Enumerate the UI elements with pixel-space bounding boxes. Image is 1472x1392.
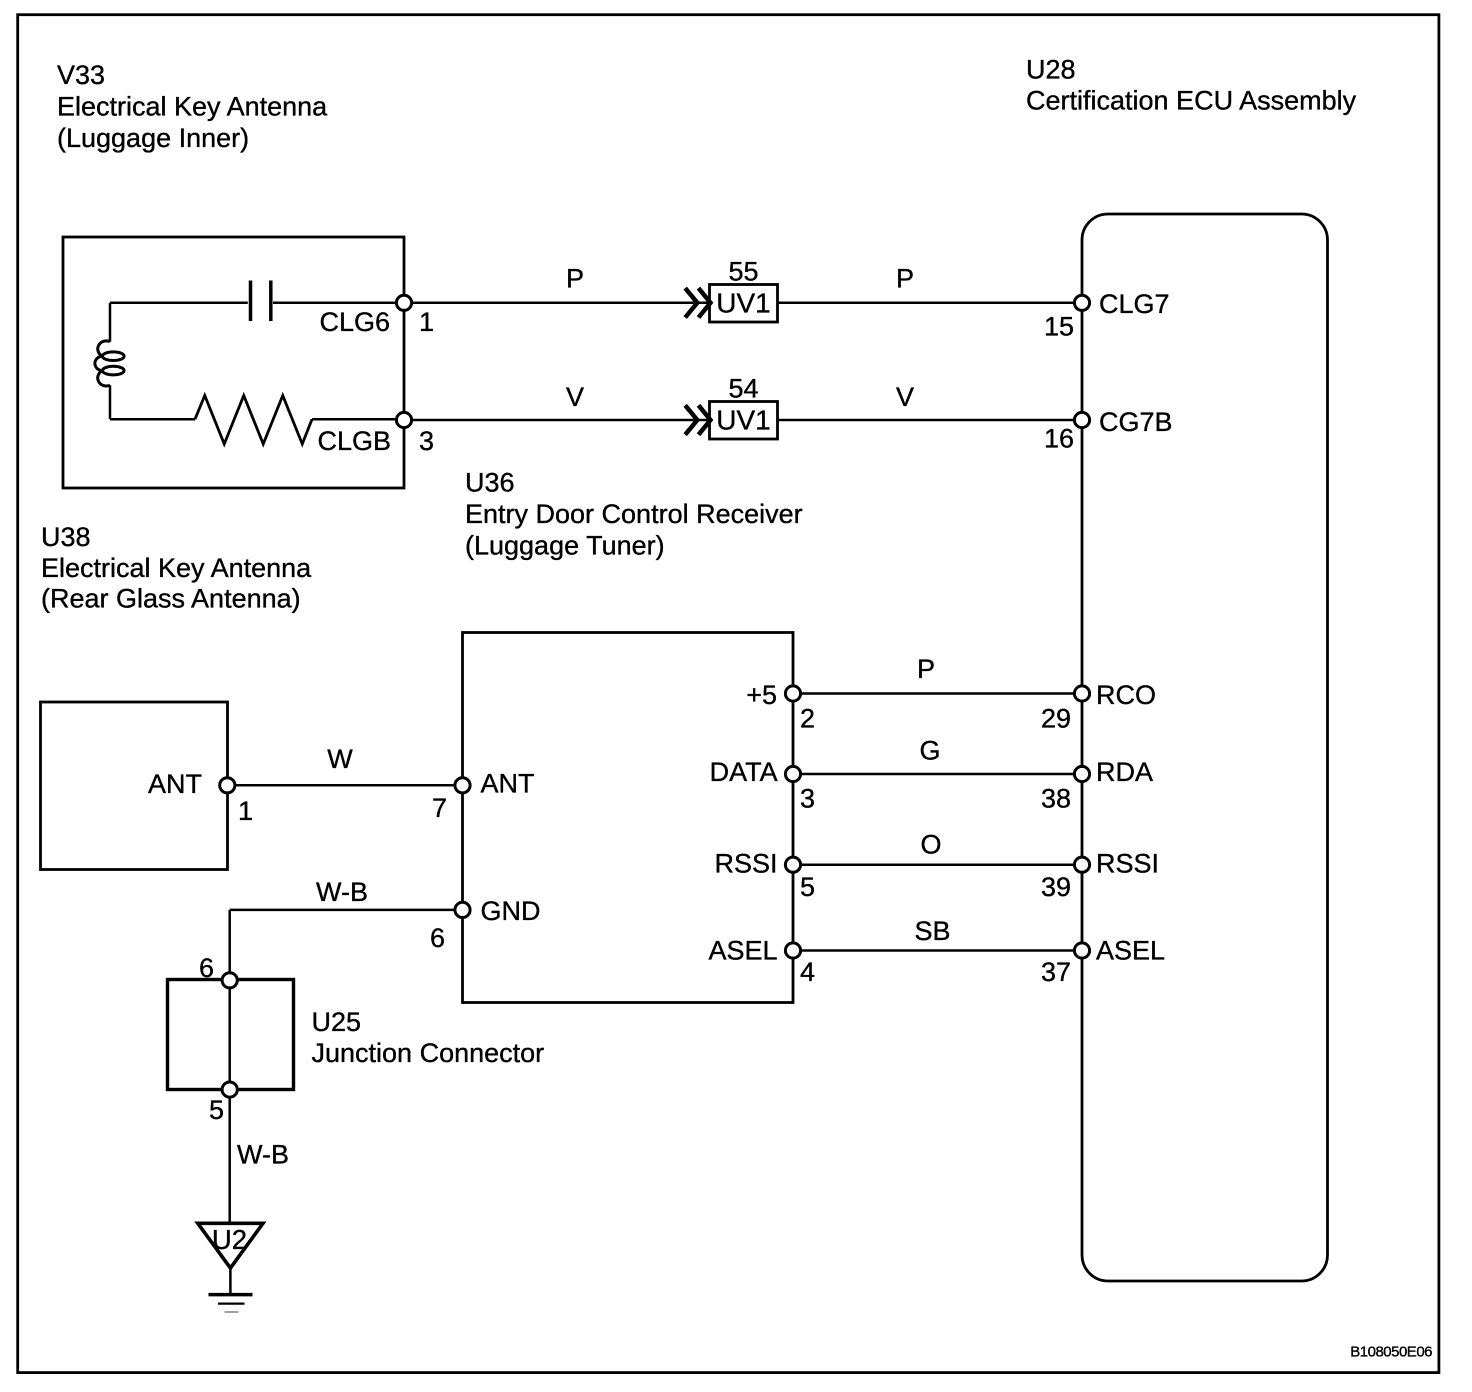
svg-text:ANT: ANT	[481, 769, 535, 799]
svg-text:37: 37	[1041, 957, 1071, 987]
svg-text:U38: U38	[41, 522, 91, 552]
svg-text:RSSI: RSSI	[1096, 848, 1159, 878]
svg-text:55: 55	[728, 256, 758, 286]
svg-text:W-B: W-B	[316, 877, 368, 907]
svg-text:RCO: RCO	[1096, 680, 1156, 710]
svg-text:CLG7: CLG7	[1099, 289, 1170, 319]
svg-text:Junction Connector: Junction Connector	[312, 1038, 545, 1068]
svg-text:1: 1	[419, 307, 434, 337]
svg-text:SB: SB	[914, 916, 950, 946]
svg-text:15: 15	[1044, 312, 1074, 342]
svg-text:3: 3	[419, 426, 434, 456]
svg-text:V: V	[896, 382, 914, 412]
svg-text:W-B: W-B	[237, 1140, 289, 1170]
svg-text:RDA: RDA	[1096, 757, 1153, 787]
svg-text:+5: +5	[746, 680, 777, 710]
svg-text:Electrical Key Antenna: Electrical Key Antenna	[41, 553, 312, 583]
svg-text:U28: U28	[1026, 54, 1076, 84]
svg-text:W: W	[327, 744, 353, 774]
svg-text:DATA: DATA	[710, 757, 778, 787]
svg-text:UV1: UV1	[716, 287, 770, 318]
svg-text:B108050E06: B108050E06	[1350, 1344, 1432, 1361]
svg-text:P: P	[566, 264, 584, 294]
svg-text:6: 6	[199, 953, 214, 983]
svg-text:O: O	[920, 830, 941, 860]
svg-text:ASEL: ASEL	[708, 935, 777, 965]
svg-text:54: 54	[728, 373, 758, 403]
svg-text:P: P	[896, 264, 914, 294]
svg-text:5: 5	[209, 1095, 224, 1125]
svg-text:ANT: ANT	[148, 769, 202, 799]
svg-text:V: V	[566, 382, 584, 412]
svg-text:UV1: UV1	[716, 405, 770, 436]
svg-text:V33: V33	[57, 60, 105, 90]
svg-text:G: G	[919, 736, 940, 766]
svg-text:RSSI: RSSI	[714, 848, 777, 878]
svg-text:Electrical Key Antenna: Electrical Key Antenna	[57, 91, 328, 121]
svg-text:(Rear Glass Antenna): (Rear Glass Antenna)	[41, 584, 301, 614]
svg-text:P: P	[917, 654, 935, 684]
svg-text:7: 7	[432, 793, 447, 823]
svg-text:Certification ECU Assembly: Certification ECU Assembly	[1026, 85, 1357, 115]
svg-text:CG7B: CG7B	[1099, 407, 1173, 437]
svg-text:5: 5	[800, 872, 815, 902]
svg-text:6: 6	[430, 923, 445, 953]
svg-text:(Luggage Inner): (Luggage Inner)	[57, 123, 249, 153]
svg-text:U36: U36	[465, 468, 515, 498]
svg-text:3: 3	[800, 784, 815, 814]
svg-text:(Luggage Tuner): (Luggage Tuner)	[465, 531, 665, 561]
svg-text:U25: U25	[312, 1007, 362, 1037]
svg-text:U2: U2	[212, 1224, 247, 1255]
svg-text:CLGB: CLGB	[317, 426, 391, 456]
svg-text:39: 39	[1041, 872, 1071, 902]
svg-text:CLG6: CLG6	[319, 307, 390, 337]
svg-text:ASEL: ASEL	[1096, 935, 1165, 965]
svg-text:2: 2	[800, 704, 815, 734]
svg-text:GND: GND	[481, 896, 541, 926]
svg-text:29: 29	[1041, 704, 1071, 734]
svg-text:38: 38	[1041, 784, 1071, 814]
svg-text:16: 16	[1044, 424, 1074, 454]
svg-text:Entry Door Control Receiver: Entry Door Control Receiver	[465, 499, 803, 529]
svg-text:4: 4	[800, 957, 815, 987]
svg-text:1: 1	[238, 796, 253, 826]
